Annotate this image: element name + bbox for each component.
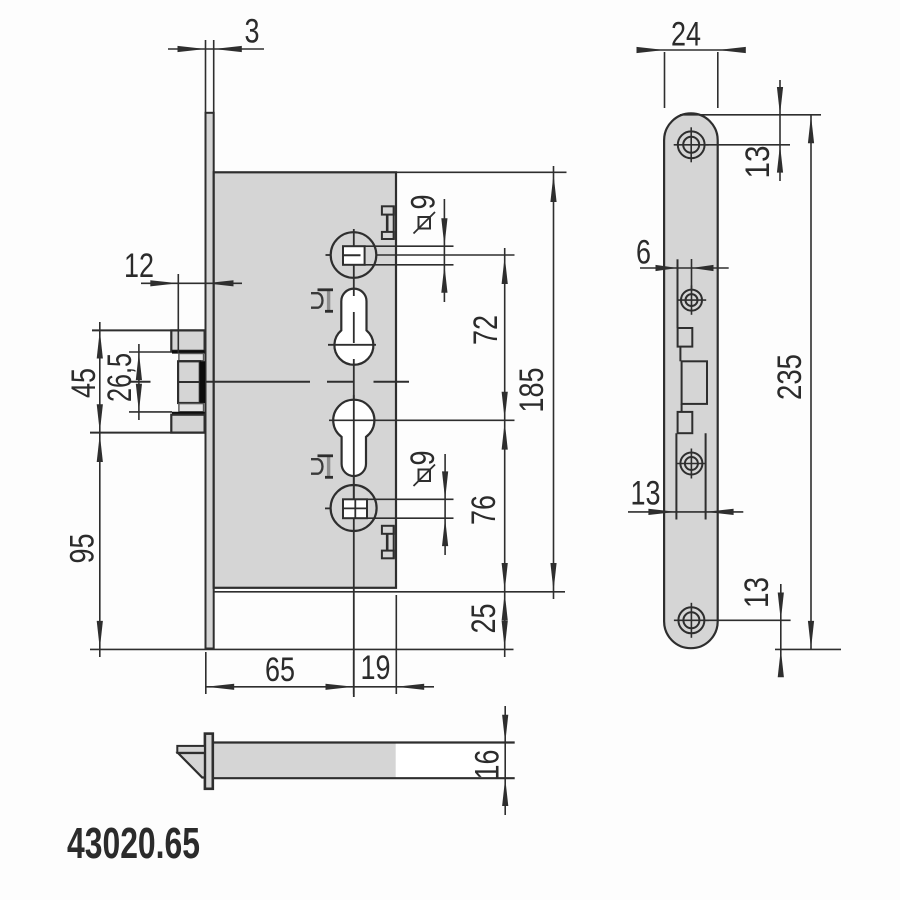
svg-text:16: 16 bbox=[469, 750, 507, 780]
latch bolt top guide block bbox=[171, 330, 204, 350]
dim 6 extension line bbox=[691, 259, 693, 289]
lower dia9 label bbox=[404, 451, 442, 466]
svg-text:76: 76 bbox=[465, 495, 503, 525]
dim 16 label bbox=[469, 750, 507, 780]
dim 13 mid line and arrows bbox=[628, 509, 743, 515]
latch window tab C bbox=[678, 412, 693, 433]
dim 6 line and arrows bbox=[640, 265, 729, 271]
svg-text:9: 9 bbox=[404, 451, 442, 466]
latch bolt upper step strip bbox=[179, 354, 204, 361]
screw hole bottom bbox=[674, 603, 709, 638]
dim 13 bottom label bbox=[738, 577, 776, 608]
latch bolt lower black line bbox=[172, 412, 205, 415]
svg-text:72: 72 bbox=[467, 315, 505, 345]
svg-text:13: 13 bbox=[739, 146, 777, 179]
vertical centerline segments bbox=[353, 229, 355, 697]
case top extension line bbox=[396, 171, 567, 173]
dim 72 arrows bbox=[502, 256, 508, 420]
dim 185 label bbox=[513, 368, 551, 413]
dim 76 label bbox=[465, 495, 503, 525]
dim 65-19 line bbox=[206, 686, 434, 688]
bottom view faceplate section bbox=[205, 734, 213, 789]
top follower square outline bbox=[343, 246, 365, 265]
bottom follower rect hole (white) bbox=[343, 499, 367, 518]
dim 76 arrows bbox=[502, 422, 508, 591]
latch window tab A bbox=[678, 328, 693, 347]
dim 12 extension line bbox=[177, 274, 179, 353]
bolt outline top line / dim45 ext bbox=[92, 329, 206, 331]
dim 26,5 extension lines bbox=[129, 352, 172, 412]
svg-text:12: 12 bbox=[124, 247, 154, 285]
lower dia9 leader lines bbox=[367, 499, 454, 518]
fixing clip bottom-right bbox=[382, 526, 394, 559]
dim 3 label bbox=[245, 13, 260, 51]
faceplate side view stadium bbox=[664, 113, 718, 648]
svg-text:95: 95 bbox=[64, 534, 102, 564]
svg-text:9: 9 bbox=[405, 195, 443, 210]
svg-text:26,5: 26,5 bbox=[101, 353, 139, 402]
dim 24 extension lines bbox=[665, 52, 718, 108]
retaining clip symbol upper bbox=[311, 290, 333, 312]
dim 13 top line and arrows bbox=[777, 80, 783, 181]
latch bolt head bbox=[178, 361, 200, 403]
svg-text:235: 235 bbox=[771, 354, 809, 400]
dim 13 mid label bbox=[631, 475, 661, 513]
dim 45 arrows bbox=[97, 331, 103, 433]
svg-text:45: 45 bbox=[65, 368, 103, 398]
dim 13 top label bbox=[739, 146, 777, 179]
dim 26,5 label bbox=[101, 353, 139, 402]
bolt outline bottom line / dim95 ext bbox=[90, 432, 206, 434]
dim 25 label bbox=[465, 604, 503, 634]
lower euro cylinder hole bbox=[333, 400, 374, 476]
dim 12 label bbox=[124, 247, 154, 285]
upper dia9 leader lines bbox=[365, 246, 454, 265]
faceplate front view (3mm strip) bbox=[206, 113, 214, 649]
bottom view latch bevel triangle bbox=[178, 753, 205, 778]
case bottom flange line bbox=[214, 591, 565, 593]
dim 235 line and arrows bbox=[808, 115, 814, 649]
upper euro cylinder hole bbox=[334, 289, 373, 365]
dim 24 label bbox=[671, 16, 701, 54]
adjust hole lower bbox=[676, 449, 706, 479]
retaining clip symbol lower bbox=[311, 456, 333, 478]
dashed horizontal centerline bbox=[129, 381, 410, 383]
latch bolt upper black line bbox=[172, 350, 205, 353]
bottom follower rect outline bbox=[343, 499, 367, 518]
lower dia9 dim line and arrows bbox=[442, 454, 448, 555]
svg-text:43020.65: 43020.65 bbox=[67, 819, 200, 868]
latch window upper edge bbox=[677, 259, 679, 328]
upper dia9 dim line and arrows bbox=[441, 199, 447, 302]
lock case body bbox=[214, 172, 396, 588]
latch bolt bottom guide block bbox=[171, 415, 204, 433]
screw hole top leader bbox=[705, 144, 790, 146]
dim 185 line and arrows bbox=[550, 166, 556, 599]
dim 45-95 line bbox=[99, 322, 101, 657]
latch window connector 2 bbox=[681, 404, 683, 412]
svg-text:24: 24 bbox=[671, 16, 701, 54]
latch window connector 1 bbox=[679, 347, 681, 362]
upper dia9 square symbol bbox=[414, 212, 436, 234]
dim 3 extension lines bbox=[206, 40, 214, 113]
dim 3 line and arrows bbox=[168, 46, 264, 52]
dim 235 label bbox=[771, 354, 809, 400]
centerline over lower keyhole bbox=[353, 395, 355, 499]
screw hole top bbox=[674, 127, 709, 162]
dim 19 arrow bbox=[396, 684, 424, 690]
dim 95 arrows bbox=[97, 434, 103, 649]
fixing clip top-right bbox=[382, 206, 394, 239]
bottom follower circle bbox=[331, 485, 377, 531]
upper dia9 label bbox=[405, 195, 443, 210]
dim 19 label bbox=[361, 649, 391, 687]
latch window rect B bbox=[682, 361, 707, 404]
bottom follower cross bbox=[325, 499, 367, 518]
dim 16 line and arrows bbox=[502, 706, 508, 815]
top follower square hole (white) bbox=[343, 246, 365, 265]
svg-text:19: 19 bbox=[361, 649, 391, 687]
svg-text:13: 13 bbox=[631, 475, 661, 513]
top follower circle bbox=[331, 232, 377, 278]
adjust hole upper bbox=[677, 285, 706, 314]
latch bolt black shadow bar bbox=[200, 361, 205, 403]
dim 72 label bbox=[467, 315, 505, 345]
latch bolt head divider bbox=[178, 381, 200, 383]
svg-text:65: 65 bbox=[265, 651, 295, 689]
svg-text:185: 185 bbox=[513, 368, 551, 413]
svg-text:25: 25 bbox=[465, 604, 503, 634]
dim 25 arrows bbox=[502, 593, 508, 649]
dim 13 bottom line and arrows bbox=[778, 584, 784, 677]
dim 6 label bbox=[636, 234, 651, 272]
screw hole bottom leader bbox=[705, 619, 791, 621]
dim 12 line and arrows bbox=[141, 280, 242, 286]
dim 65-19 extension lines bbox=[206, 595, 396, 694]
part number 43020.65 bbox=[67, 819, 200, 868]
latch bolt lower step strip bbox=[179, 404, 204, 412]
lower keyhole center leader bbox=[329, 419, 515, 421]
latch window lower sides bbox=[676, 433, 705, 519]
plate bottom right extension line bbox=[775, 648, 841, 650]
upper keyhole circle h-tick bbox=[328, 344, 376, 346]
dim 65 arrows bbox=[206, 684, 353, 690]
dim 24 line and arrows bbox=[637, 47, 746, 53]
svg-text:3: 3 bbox=[245, 13, 260, 51]
top follower center leader to dim bbox=[377, 254, 515, 256]
bottom view case bar bbox=[213, 743, 515, 779]
dim 45 label bbox=[65, 368, 103, 398]
dim 72-76-25 line bbox=[504, 248, 506, 657]
lower dia9 square symbol bbox=[414, 465, 436, 487]
dim 26,5 line and arrows bbox=[136, 344, 142, 420]
dim 95 label bbox=[64, 534, 102, 564]
svg-text:13: 13 bbox=[738, 577, 776, 608]
svg-text:6: 6 bbox=[636, 234, 651, 272]
plate bottom extension line bbox=[90, 648, 514, 650]
bottom view latch stem bbox=[177, 746, 205, 753]
top follower centerline ticks bbox=[326, 254, 361, 256]
plate top extension line bbox=[680, 114, 821, 116]
dim 65 label bbox=[265, 651, 295, 689]
